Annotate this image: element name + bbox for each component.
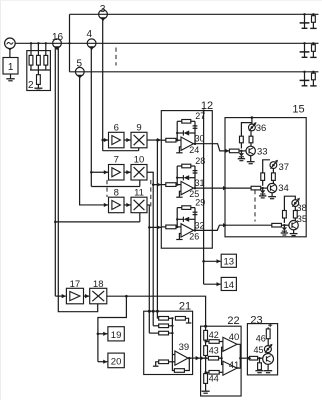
ground stub op-amp 25 (176, 191, 182, 197)
output join wire 40 41 (237, 344, 240, 368)
wire tap row2 down to block 21 (152, 185, 154, 326)
collector resistor unit A (249, 131, 253, 146)
multiplier 9 (131, 123, 147, 148)
resistor 46 (256, 327, 270, 345)
load resistor to ground (310, 14, 316, 28)
bus wire top phase (70, 13, 319, 15)
divider resistor 44 (204, 374, 219, 391)
junction unit C (283, 224, 285, 226)
junction load cap (303, 71, 305, 73)
summing resistor R1 (157, 317, 172, 321)
junction divider 43-44 (204, 371, 206, 373)
op-amp 26 (181, 224, 199, 242)
wire source to box 1 (9, 51, 11, 58)
amplifier 8 (109, 187, 125, 212)
join wire in block 2 (30, 69, 50, 71)
wire mixer 9 output to block 12 (147, 138, 161, 142)
junction feedback 24 (176, 139, 179, 142)
output wire 30 (194, 134, 213, 144)
indicator 37 (270, 160, 289, 173)
bias resistor unit A (240, 123, 252, 149)
resistor in block 2 (mid) (37, 43, 41, 70)
junction stub node (220, 357, 222, 359)
junction mixer 11 tap (148, 226, 151, 229)
emitter ground 23 (264, 364, 272, 372)
load resistor to ground (310, 43, 316, 57)
plus supply mark (268, 323, 272, 327)
dashed line in block 15 (254, 190, 256, 222)
op-amp 25 (181, 181, 199, 199)
block 2 (load resistor bank) (27, 51, 51, 91)
bias resistor unit B (261, 160, 270, 186)
junction border 36 (251, 116, 254, 119)
wire transducer 4 drop to amp 7 and mixer 10 (91, 48, 140, 187)
transistor 34 (267, 183, 288, 194)
block 22 (window comparator) (201, 315, 242, 396)
junction branch 19 (97, 333, 100, 336)
junction output 24 (194, 142, 197, 145)
junction diode 26 (176, 218, 178, 220)
stub to op-amp 40 (222, 347, 223, 358)
junction feedback 25 (176, 183, 179, 186)
input resistor unit A (229, 149, 246, 153)
op-amp 39 (175, 342, 189, 365)
diode in feedback 26 (177, 217, 195, 222)
wire amp 6 to mixer 9 (124, 138, 131, 142)
block 12 (comparator unit) (161, 100, 213, 248)
load capacitor to ground (300, 72, 310, 86)
capacitor in feedback 24 (193, 126, 198, 128)
junction divider 42-43 (204, 340, 206, 342)
junction entry 3 (156, 310, 159, 313)
op-amp 40 (223, 332, 239, 352)
op-amp 41 (223, 360, 239, 375)
wire lamp to transistor (267, 353, 269, 354)
amplifier 7 (109, 155, 125, 180)
junction load res (312, 13, 314, 15)
wire transducer 16 second leg to mixer 18 (58, 48, 97, 312)
junction bus tap 3 (45, 42, 47, 44)
input resistor unit C (272, 223, 289, 227)
input wire block 22 (200, 356, 221, 360)
resistor in block 2 (left) (29, 43, 33, 70)
junction input node 22 (204, 357, 206, 359)
summing resistor R2 (153, 324, 172, 328)
junction riser-bus (68, 42, 70, 44)
summing resistor R3 (149, 331, 172, 335)
junction mixer 10 tap (152, 183, 155, 186)
junction entry 1 (148, 310, 151, 313)
capacitor in feedback 26 (193, 212, 198, 214)
transistor 47 (263, 354, 274, 365)
feedback resistor 29 (177, 197, 205, 230)
wire amp 8 to mixer 11 (124, 203, 131, 207)
reference resistor to op-amp 40 (206, 340, 223, 344)
indicator lamp 45 (253, 344, 272, 355)
load resistor to ground (310, 72, 316, 86)
diode to ground unit B (262, 188, 264, 190)
diode to ground unit A (240, 151, 242, 153)
bus wire bottom phase (70, 71, 319, 73)
junction mixer 18 output (125, 295, 128, 298)
wire mixer 18 output to block 22 (107, 296, 206, 326)
transducer 4 (87, 29, 96, 50)
junction bias 23 (258, 357, 260, 359)
dashed line near mixers (150, 180, 152, 209)
transistor 35 (289, 214, 307, 230)
junction load cap (303, 42, 305, 44)
op-amp 24 (181, 137, 199, 155)
junction output 26 (194, 229, 197, 232)
ground stub op-amp 24 (176, 147, 182, 153)
block 23 (output indicator) (247, 315, 277, 375)
block 13 (indicator) (221, 254, 236, 267)
input resistor block 23 (247, 356, 262, 360)
wire tap row1 down to block 21 (156, 140, 158, 318)
load capacitor to ground (300, 43, 310, 57)
multiplier 10 (131, 155, 147, 180)
dashed line near amplifiers (106, 180, 108, 197)
junction load res (312, 71, 314, 73)
collector resistor unit B (272, 168, 276, 183)
junction unit B (262, 187, 264, 189)
capacitor in feedback 25 (193, 171, 198, 173)
junction on leg 16 (54, 221, 57, 224)
junction unit A (240, 150, 242, 152)
diode in feedback 24 (177, 130, 195, 135)
feedback resistor 28 (177, 156, 205, 189)
junction output 22 (239, 357, 241, 359)
junction mixer 9 tap (156, 139, 159, 142)
bias resistor unit C (283, 196, 296, 223)
ground resistor op-amp 39 (153, 360, 175, 366)
dashed line near transducers (115, 48, 117, 66)
lower resistor in block 2 (37, 70, 41, 88)
divider resistor 42 (204, 326, 219, 346)
junction feedback 39 (188, 357, 191, 360)
junction bus tap 1 (30, 42, 32, 44)
junction on drop 3 (101, 139, 104, 142)
input resistor of comparator 24 (161, 138, 181, 142)
transducer 5 (75, 59, 84, 79)
junction feeder top (202, 109, 204, 111)
feedback resistor 27 (177, 111, 205, 144)
wire tap row3 down to block 21 (148, 227, 150, 333)
transducer 3 (99, 4, 108, 22)
wire amp 7 to mixer 10 (124, 170, 131, 174)
wire block 12 top to indicators 13 14 (204, 111, 221, 287)
stub to op-amp 41 (222, 358, 223, 364)
wire 36 to border (251, 118, 253, 124)
emitter ground 34 (268, 193, 276, 199)
wire branch to blocks 19 20 (98, 296, 127, 364)
wire mixer 11 output to block 12 (147, 205, 161, 230)
wire transducer 5 drop to amp 8 (80, 76, 108, 207)
emitter ground 33 (247, 156, 255, 164)
junction bus tap 2 (37, 42, 39, 44)
block 14 (indicator) (221, 277, 236, 290)
load capacitor to ground (300, 14, 310, 28)
summing node wire (171, 318, 173, 354)
junction diode 25 (176, 177, 178, 179)
junction feedback 26 (176, 226, 179, 229)
block 1 (source unit) (3, 58, 18, 75)
junction entry 2 (152, 310, 155, 313)
bus wire middle phase (15, 42, 318, 44)
wire op-amp 39 output to block 22 (188, 356, 200, 360)
wire sum to op-amp 39 (172, 354, 175, 356)
AC source G1 (5, 38, 16, 51)
bias resistor to ground 23 (255, 358, 263, 373)
ground under block 1 (6, 74, 14, 81)
junction on drop 4 (90, 171, 93, 174)
junction entry 22 (204, 325, 207, 328)
transistor 33 (246, 146, 268, 157)
junction load cap (303, 13, 305, 15)
junction output 25 (194, 187, 197, 190)
wire mixer 10 output to block 12 (147, 172, 161, 186)
wire 30 from block 12 to block 15 (212, 144, 229, 153)
multiplier 18 (90, 279, 107, 304)
amplifier 17 (66, 279, 83, 304)
amplifier 6 (109, 123, 125, 148)
ground divider 44 (202, 390, 210, 392)
riser wire joining buses (69, 14, 71, 72)
emitter ground 35 (290, 230, 298, 236)
feedback resistor op-amp 39 (172, 355, 189, 373)
wire transducer 3 drop to amp 6 and mixer 9 (103, 19, 139, 151)
junction load res (312, 42, 314, 44)
output wire 32 (194, 220, 213, 230)
junction feeder 13 (202, 260, 205, 263)
input resistor unit B (251, 186, 267, 190)
divider resistor 43 (204, 346, 219, 373)
ground in block 2 (34, 87, 42, 89)
block 20 (meter) (108, 353, 124, 368)
resistor in block 2 (right) (44, 43, 48, 70)
junction sum R4 (171, 317, 173, 319)
wire 32 from block 12 to block 15 (212, 223, 272, 230)
block 19 (meter) (108, 327, 124, 341)
junction sum R2 (171, 325, 173, 327)
wire transducer 16 leg to amp 17 and mixer 11 (55, 48, 140, 299)
indicator 36 (249, 122, 267, 134)
block 21 (summing amplifier unit) (144, 301, 193, 375)
multiplier 11 (131, 187, 147, 212)
output wire 31 (194, 178, 213, 188)
input resistor of comparator 26 (161, 225, 181, 229)
junction diode 24 (176, 132, 178, 134)
junction sum R3 (171, 332, 173, 334)
block 15 (output relay unit) (225, 104, 306, 237)
wire amp 17 to mixer 18 (84, 294, 90, 298)
ground stub op-amp 26 (176, 234, 182, 240)
wire 31 from block 12 to block 15 (212, 186, 251, 190)
transducer 16 (52, 32, 64, 51)
input resistor of comparator 25 (161, 183, 181, 187)
indicator 38 (292, 198, 307, 214)
diode in feedback 25 (177, 175, 195, 180)
diode to ground unit C (283, 225, 285, 227)
resistor to ground R4 (175, 317, 191, 324)
collector resistor unit C (293, 207, 297, 221)
wire block 22 to block 23 (240, 356, 251, 360)
reference resistor to op-amp 41 (206, 371, 223, 375)
